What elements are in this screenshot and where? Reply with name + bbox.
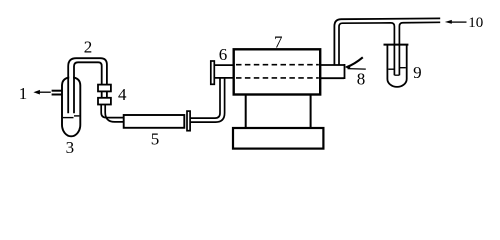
pipe from tube 5 up to furnace inlet (outer wall) xyxy=(190,79,225,123)
pipe from joint 4 down to tube 5 (outer wall) xyxy=(105,105,123,122)
furnace tube right stub xyxy=(320,64,344,79)
stopper flange 6 xyxy=(211,61,215,84)
furnace stand column xyxy=(246,95,311,129)
riser pipe and bend 2 (inner wall) xyxy=(74,62,102,113)
tube 5 right flange xyxy=(187,111,190,131)
svg-text:8: 8 xyxy=(357,70,366,89)
pipe from tube 5 up to furnace inlet (inner wall) xyxy=(190,79,220,119)
svg-text:4: 4 xyxy=(118,85,127,104)
riser pipe bore (white over dome) xyxy=(69,70,73,112)
svg-text:7: 7 xyxy=(274,33,283,52)
svg-text:10: 10 xyxy=(468,15,483,31)
furnace tube left stub xyxy=(215,65,235,78)
furnace tube dashed (lower) xyxy=(236,77,319,79)
liquid level in bottle 3 xyxy=(63,116,80,118)
furnace 7 body xyxy=(234,49,321,94)
side tube of bottle 3 xyxy=(52,91,62,95)
arrow at outlet 1 xyxy=(33,90,50,95)
furnace base xyxy=(233,128,323,149)
joint 4 upper block xyxy=(98,85,111,92)
joint 4 pipe between blocks xyxy=(102,91,107,97)
tube 5 body xyxy=(124,115,185,128)
svg-text:6: 6 xyxy=(219,45,228,64)
liquid level in tube 9 xyxy=(388,68,406,70)
svg-text:9: 9 xyxy=(413,63,422,82)
riser pipe and bend 2 (outer wall) xyxy=(68,58,107,113)
test tube 9 lip xyxy=(384,44,409,46)
branch tube end tick xyxy=(394,74,399,76)
svg-text:1: 1 xyxy=(19,84,28,103)
arrow 10 xyxy=(445,20,467,24)
bottle 3 (closed test tube body) xyxy=(62,77,80,136)
svg-text:3: 3 xyxy=(66,138,75,157)
riser pipe from furnace outlet up (outer wall) and top pipe upper line xyxy=(334,18,440,65)
furnace tube dashed (upper) xyxy=(236,64,319,66)
pipe from joint 4 down to tube 5 (inner wall) xyxy=(101,105,123,118)
joint 4 lower block xyxy=(98,98,111,105)
flame arrow 8 xyxy=(345,57,366,69)
riser pipe (inner wall), top pipe lower line left segment, branch left wall xyxy=(339,23,394,75)
branch right wall and top pipe lower line right segment xyxy=(399,22,440,75)
svg-text:2: 2 xyxy=(84,38,93,57)
test tube 9 body xyxy=(387,45,406,87)
svg-text:5: 5 xyxy=(151,130,160,149)
